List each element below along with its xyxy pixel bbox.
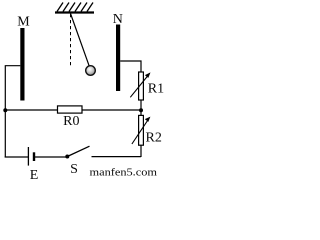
node junction right: [139, 108, 143, 112]
svg-text:M: M: [17, 15, 30, 30]
ceiling support bar: [55, 11, 94, 13]
svg-text:manfen5.com: manfen5.com: [90, 168, 158, 179]
plate M: [20, 28, 24, 101]
resistor R2: [139, 115, 144, 145]
wire bottom rail between battery and switch: [34, 156, 67, 158]
wire middle horizontal left segment: [5, 109, 57, 111]
wire bottom rail right of switch: [92, 156, 142, 158]
ceiling hatching: [57, 3, 93, 12]
wire middle horizontal right segment: [82, 109, 141, 111]
arrow of rheostat R2: [132, 117, 151, 144]
svg-text:E: E: [30, 168, 39, 180]
svg-text:S: S: [70, 162, 78, 177]
pendulum string: [71, 14, 90, 67]
svg-text:R0: R0: [63, 114, 79, 129]
plate N: [116, 25, 120, 92]
battery E short plate: [33, 152, 35, 161]
wire from plate N to right rail: [120, 61, 141, 73]
arrow of rheostat R1: [130, 72, 150, 97]
svg-text:R1: R1: [148, 81, 164, 96]
battery E long plate: [27, 147, 29, 166]
node junction left: [3, 108, 7, 112]
wire from plate M to left rail: [5, 66, 20, 158]
switch S lever: [67, 146, 89, 156]
svg-text:R2: R2: [146, 130, 162, 145]
wire right rail (through R1/R2 positions): [140, 73, 142, 158]
resistor R1: [139, 72, 144, 100]
svg-text:N: N: [113, 12, 123, 27]
wire bottom rail left of battery: [5, 156, 29, 158]
pendulum ball: [86, 66, 96, 76]
switch S pivot: [65, 155, 69, 159]
resistor R0: [58, 106, 83, 113]
pendulum equilibrium dashed line: [70, 14, 72, 66]
